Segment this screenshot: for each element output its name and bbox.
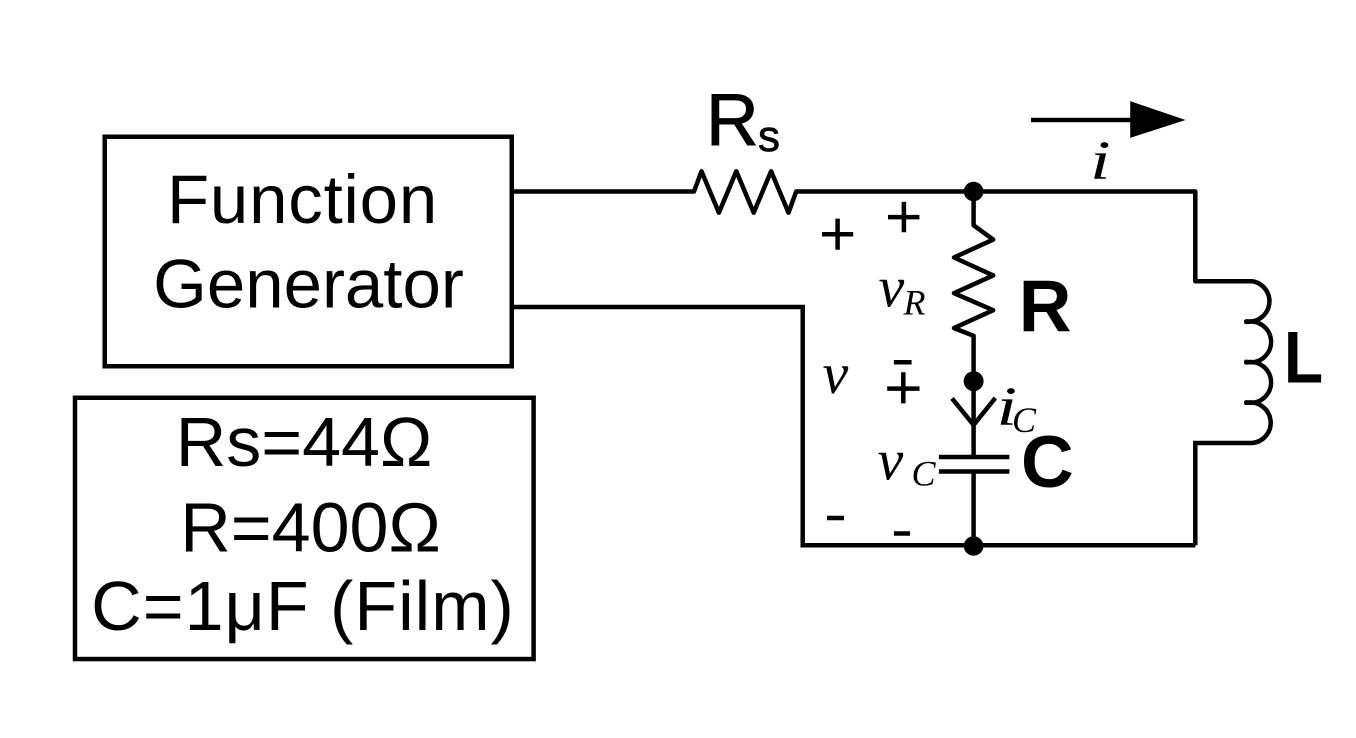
svg-text:R: R: [706, 80, 759, 161]
svg-text:R=400Ω: R=400Ω: [180, 489, 441, 567]
svg-text:Function: Function: [167, 161, 438, 238]
svg-text:v: v: [823, 341, 849, 406]
svg-text:R: R: [903, 283, 926, 323]
svg-text:s: s: [758, 112, 780, 161]
svg-text:Rs=44Ω: Rs=44Ω: [176, 403, 433, 481]
svg-text:C=1μF (Film): C=1μF (Film): [91, 567, 515, 645]
svg-text:i: i: [1090, 131, 1111, 192]
svg-text:C: C: [912, 454, 937, 494]
svg-text:L: L: [1284, 317, 1323, 399]
svg-text:C: C: [1012, 400, 1037, 440]
svg-text:v: v: [878, 428, 904, 493]
svg-text:Generator: Generator: [153, 246, 464, 323]
svg-text:v: v: [879, 255, 905, 320]
svg-text:R: R: [1019, 266, 1072, 347]
